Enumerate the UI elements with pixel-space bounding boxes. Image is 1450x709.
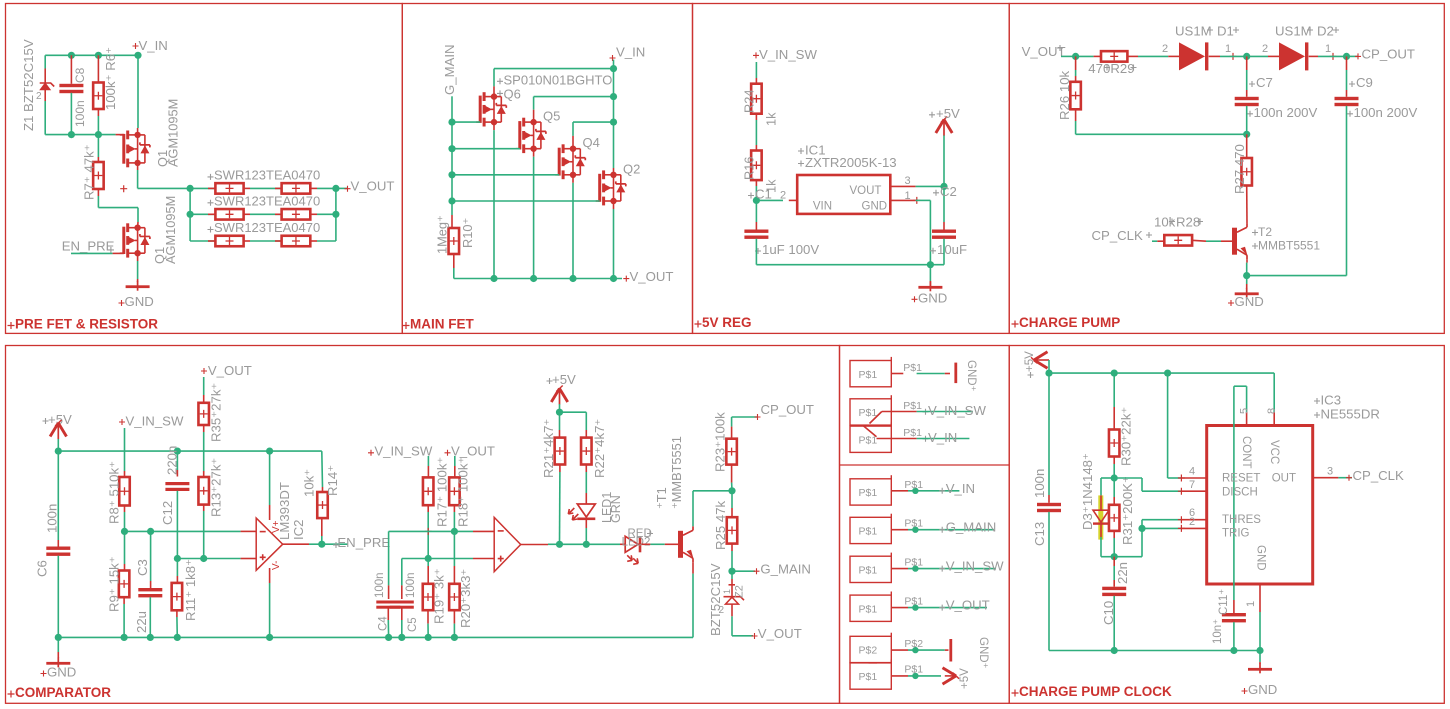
svg-text:CP_CLK: CP_CLK	[1353, 468, 1405, 483]
svg-text:+5V: +5V	[552, 372, 576, 387]
svg-text:C5: C5	[407, 617, 419, 632]
svg-text:V_OUT: V_OUT	[1022, 44, 1066, 59]
svg-text:1: 1	[722, 589, 732, 594]
svg-text:P$1: P$1	[859, 369, 878, 381]
svg-text:100n: 100n	[405, 572, 417, 598]
svg-text:C13: C13	[1032, 522, 1047, 546]
svg-text:4: 4	[1189, 466, 1195, 478]
svg-text:3: 3	[905, 175, 911, 187]
svg-text:GND⁺: GND⁺	[965, 360, 977, 392]
svg-text:P$1: P$1	[859, 526, 878, 538]
svg-text:P$1: P$1	[903, 427, 922, 439]
svg-text:MAIN FET: MAIN FET	[410, 317, 474, 332]
svg-text:R20⁺3k3⁺: R20⁺3k3⁺	[458, 569, 473, 628]
svg-text:AGM1095M: AGM1095M	[166, 99, 181, 167]
svg-text:2: 2	[719, 605, 725, 616]
svg-text:SP010N01BGHTO: SP010N01BGHTO	[504, 73, 613, 88]
svg-text:IC2: IC2	[291, 519, 306, 540]
svg-text:CP_OUT: CP_OUT	[1362, 47, 1416, 62]
svg-text:R25 47k: R25 47k	[713, 500, 728, 550]
svg-text:Z1 BZT52C15V: Z1 BZT52C15V	[21, 39, 36, 131]
svg-text:US1M: US1M	[1175, 24, 1212, 39]
svg-text:C12: C12	[160, 501, 175, 525]
svg-text:R35⁺27k⁺: R35⁺27k⁺	[209, 383, 224, 442]
svg-text:P$1: P$1	[859, 434, 878, 446]
svg-text:10k⁺: 10k⁺	[302, 469, 317, 497]
svg-text:DISCH: DISCH	[1222, 487, 1258, 499]
svg-text:SWR123TEA0470: SWR123TEA0470	[214, 220, 320, 235]
svg-text:2: 2	[1162, 43, 1168, 55]
svg-text:10uF: 10uF	[937, 242, 967, 257]
svg-text:CP_CLK: CP_CLK	[1092, 228, 1144, 243]
svg-text:R8⁺ 510k⁺: R8⁺ 510k⁺	[107, 461, 122, 524]
svg-text:P$1: P$1	[859, 487, 878, 499]
svg-text:1uF 100V: 1uF 100V	[762, 242, 819, 257]
svg-text:AGM1095M: AGM1095M	[163, 196, 178, 264]
svg-text:LED2: LED2	[622, 537, 651, 549]
svg-text:C6: C6	[35, 560, 50, 577]
svg-text:R22⁺4k7⁺: R22⁺4k7⁺	[592, 419, 607, 478]
svg-text:8: 8	[1266, 408, 1278, 414]
svg-text:R11⁺ 1k8⁺: R11⁺ 1k8⁺	[183, 559, 198, 621]
svg-text:100n: 100n	[45, 504, 60, 533]
svg-text:P$1: P$1	[904, 596, 923, 608]
svg-text:P$1: P$1	[904, 518, 923, 530]
svg-text:1: 1	[1245, 601, 1257, 607]
svg-text:BZT52C15V: BZT52C15V	[708, 563, 723, 636]
svg-text:C1: C1	[755, 187, 772, 202]
svg-text:V_IN: V_IN	[928, 430, 957, 445]
svg-text:C8: C8	[73, 67, 87, 83]
svg-text:SWR123TEA0470: SWR123TEA0470	[214, 194, 320, 209]
svg-text:V+: V+	[271, 520, 282, 533]
svg-text:R24: R24	[742, 90, 757, 113]
svg-text:GND: GND	[918, 290, 947, 305]
svg-text:2: 2	[1262, 43, 1268, 55]
svg-text:V_IN_SW: V_IN_SW	[946, 559, 1004, 574]
svg-text:VCC: VCC	[1268, 440, 1280, 464]
svg-text:G_MAIN: G_MAIN	[946, 520, 997, 535]
svg-text:220n: 220n	[165, 446, 180, 475]
svg-text:100n 200V: 100n 200V	[1254, 105, 1318, 120]
svg-text:V_OUT: V_OUT	[451, 444, 495, 459]
svg-text:1: 1	[1225, 43, 1231, 55]
svg-text:1k: 1k	[764, 112, 779, 126]
svg-text:P$1: P$1	[903, 400, 922, 412]
svg-text:R7⁺ 47k⁺: R7⁺ 47k⁺	[82, 144, 97, 200]
svg-text:100n: 100n	[374, 572, 386, 598]
svg-text:+5V: +5V	[936, 106, 960, 121]
svg-text:RESET: RESET	[1222, 473, 1260, 485]
svg-text:+5V: +5V	[959, 668, 971, 689]
svg-text:V_IN: V_IN	[139, 38, 168, 53]
svg-text:VOUT: VOUT	[850, 185, 882, 197]
svg-text:10n⁺: 10n⁺	[1212, 619, 1224, 644]
svg-text:V_OUT: V_OUT	[758, 626, 802, 641]
svg-text:GND: GND	[1255, 545, 1267, 571]
svg-text:100n: 100n	[73, 100, 87, 127]
svg-text:R17⁺ 100k⁺: R17⁺ 100k⁺	[435, 457, 450, 527]
svg-text:2: 2	[1189, 516, 1195, 528]
svg-text:GND: GND	[47, 665, 76, 680]
svg-text:⁺MMBT5551: ⁺MMBT5551	[669, 436, 684, 509]
svg-text:CHARGE PUMP CLOCK: CHARGE PUMP CLOCK	[1019, 684, 1172, 699]
svg-text:PRE FET & RESISTOR: PRE FET & RESISTOR	[15, 317, 158, 332]
svg-text:C9: C9	[1356, 75, 1373, 90]
svg-text:P$2: P$2	[859, 645, 878, 657]
svg-text:V_IN_SW: V_IN_SW	[759, 47, 817, 62]
svg-text:1: 1	[1325, 43, 1331, 55]
svg-text:CP_OUT: CP_OUT	[761, 402, 815, 417]
svg-text:MMBT5551: MMBT5551	[1258, 239, 1320, 253]
svg-text:P$2: P$2	[904, 638, 923, 650]
svg-text:2: 2	[36, 91, 42, 102]
svg-text:22u: 22u	[134, 611, 149, 633]
svg-text:GND: GND	[1235, 294, 1264, 309]
svg-text:P$1: P$1	[904, 479, 923, 491]
svg-text:GRN: GRN	[609, 495, 623, 523]
svg-text:5V REG: 5V REG	[702, 315, 752, 330]
svg-text:CONT: CONT	[1240, 436, 1252, 469]
svg-text:22n: 22n	[1115, 562, 1130, 584]
svg-text:Q6: Q6	[504, 87, 521, 102]
svg-text:R21⁺4k7⁺: R21⁺4k7⁺	[541, 419, 556, 478]
svg-text:P$1: P$1	[859, 565, 878, 577]
svg-text:GND: GND	[125, 294, 154, 309]
svg-text:P$1: P$1	[904, 664, 923, 676]
svg-text:OUT: OUT	[1272, 473, 1296, 485]
svg-text:⁺T1: ⁺T1	[654, 487, 669, 509]
svg-text:P$1: P$1	[904, 557, 923, 569]
svg-text:P$1: P$1	[859, 407, 878, 419]
svg-text:Q5: Q5	[543, 109, 560, 124]
svg-text:IC3: IC3	[1321, 393, 1342, 408]
svg-text:D3⁺1N4148⁺: D3⁺1N4148⁺	[1080, 453, 1095, 530]
svg-text:R29: R29	[1110, 61, 1134, 76]
svg-text:Z2: Z2	[734, 585, 746, 598]
svg-text:G_MAIN: G_MAIN	[760, 562, 811, 577]
svg-text:5: 5	[1239, 408, 1251, 414]
svg-text:2: 2	[780, 190, 786, 202]
svg-text:V_OUT: V_OUT	[946, 598, 990, 613]
svg-text:V_IN: V_IN	[946, 481, 975, 496]
svg-text:1Meg⁺: 1Meg⁺	[435, 215, 450, 254]
svg-text:Q4: Q4	[583, 135, 600, 150]
svg-text:G_MAIN: G_MAIN	[442, 44, 457, 95]
svg-text:NE555DR: NE555DR	[1321, 407, 1380, 422]
svg-text:R28: R28	[1176, 215, 1200, 230]
svg-text:R18⁺ 100k⁺: R18⁺ 100k⁺	[456, 457, 471, 527]
svg-text:CHARGE PUMP: CHARGE PUMP	[1019, 315, 1120, 330]
svg-text:C11⁺: C11⁺	[1218, 589, 1230, 615]
svg-text:D1: D1	[1217, 24, 1234, 39]
svg-text:P$1: P$1	[859, 603, 878, 615]
svg-text:100k⁺ R6⁺: 100k⁺ R6⁺	[103, 47, 118, 110]
svg-text:100n 200V: 100n 200V	[1354, 105, 1418, 120]
svg-text:GND⁺: GND⁺	[977, 637, 989, 669]
svg-text:R10⁺: R10⁺	[460, 218, 475, 248]
svg-text:V_OUT: V_OUT	[630, 269, 674, 284]
svg-text:C7: C7	[1256, 75, 1273, 90]
svg-text:Q2: Q2	[623, 162, 640, 177]
svg-text:V-: V-	[271, 561, 282, 570]
svg-text:R16: R16	[742, 157, 757, 180]
svg-text:TRIG: TRIG	[1222, 528, 1250, 540]
svg-text:US1M: US1M	[1275, 24, 1312, 39]
svg-text:P$1: P$1	[903, 362, 922, 374]
svg-text:D2: D2	[1317, 24, 1334, 39]
svg-text:GND: GND	[862, 200, 888, 212]
svg-text:GND: GND	[1248, 682, 1277, 697]
svg-text:V_IN_SW: V_IN_SW	[928, 403, 986, 418]
svg-text:1: 1	[905, 190, 911, 202]
svg-text:C2: C2	[940, 184, 957, 199]
svg-text:THRES: THRES	[1222, 514, 1261, 526]
svg-text:EN_PRE: EN_PRE	[62, 239, 115, 254]
svg-text:VIN: VIN	[813, 200, 832, 212]
svg-text:SWR123TEA0470: SWR123TEA0470	[214, 168, 320, 183]
svg-text:3: 3	[1327, 466, 1333, 478]
svg-text:V_IN_SW: V_IN_SW	[126, 414, 184, 429]
svg-text:100n: 100n	[1032, 469, 1047, 498]
svg-text:T2: T2	[1258, 225, 1272, 239]
svg-text:R31⁺200K⁺: R31⁺200K⁺	[1120, 476, 1135, 545]
svg-text:EN_PRE: EN_PRE	[337, 535, 390, 550]
svg-text:V_IN: V_IN	[616, 45, 645, 60]
svg-text:V_IN_SW: V_IN_SW	[374, 444, 432, 459]
svg-text:ZXTR2005K-13: ZXTR2005K-13	[805, 155, 897, 170]
svg-text:R14⁺: R14⁺	[325, 465, 340, 496]
svg-text:R27 470: R27 470	[1232, 144, 1247, 194]
svg-text:R9⁺ 15k⁺: R9⁺ 15k⁺	[107, 556, 122, 612]
svg-text:V_OUT: V_OUT	[351, 179, 395, 194]
svg-text:COMPARATOR: COMPARATOR	[15, 685, 111, 700]
svg-text:R23⁺100k: R23⁺100k	[713, 412, 728, 472]
svg-text:R30⁺22k⁺: R30⁺22k⁺	[1119, 407, 1134, 466]
svg-text:7: 7	[1189, 479, 1195, 491]
svg-text:R13⁺27k⁺: R13⁺27k⁺	[209, 458, 224, 517]
svg-text:R19⁺ 3k⁺: R19⁺ 3k⁺	[432, 568, 447, 624]
svg-text:P$1: P$1	[859, 671, 878, 683]
svg-text:C3: C3	[135, 559, 150, 576]
svg-text:V_OUT: V_OUT	[208, 363, 252, 378]
